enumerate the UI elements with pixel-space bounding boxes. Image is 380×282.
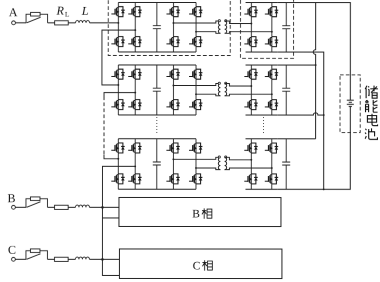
transistor module1 S1t <box>111 7 124 17</box>
wire module2 secondary top rail extension <box>278 64 316 66</box>
transistor module3 secondary cell <box>265 174 278 184</box>
transistor module1 S3t <box>128 7 141 17</box>
resistor R_C <box>55 257 69 261</box>
wire module1 secondary leg1 <box>250 3 252 52</box>
transistor module2 secondary cell <box>265 100 278 110</box>
svg-text:B: B <box>192 208 200 220</box>
wire module3 secondary leg2 <box>271 139 273 189</box>
wire module1 secondary top rail to battery positive <box>278 3 351 101</box>
capacitor module1 DC-link C1 <box>153 2 161 52</box>
transistor module3 S1t <box>111 143 124 153</box>
wire module2 leg1 <box>117 65 119 115</box>
wire A terminal to breaker <box>15 22 26 24</box>
wire module2 secondary leg1 <box>250 65 252 115</box>
wire module3 leg2 <box>134 139 136 189</box>
transistor module3 secondary cell <box>265 143 278 153</box>
transistor module1 S2 <box>111 37 124 47</box>
wire phase A inductor to module1 <box>90 22 119 24</box>
wire module3 secondary bottom rail to battery negative <box>278 106 351 189</box>
transistor module2 Q4 <box>189 100 202 110</box>
terminal C <box>12 257 16 261</box>
transistor module2 S4 <box>128 100 141 110</box>
wire B terminal to breaker <box>15 206 26 208</box>
wire transformer secondary to module2 rectifier leg1 mid <box>225 84 252 87</box>
wire chain module1 leg2-mid to module2 input <box>102 30 135 85</box>
transistor module2 S1t <box>111 69 124 79</box>
transistor module2 Q2 <box>166 100 179 110</box>
svg-text:C: C <box>8 243 16 257</box>
transformer module3 polarity dots <box>218 156 220 158</box>
wire module3 H-bridge bottom rail <box>118 188 196 190</box>
wire module1 leg1 <box>117 2 119 51</box>
B-phase converter box <box>119 197 281 226</box>
wire module3 H-bridge top rail <box>118 138 196 140</box>
wire chain module3 leg2-mid to neutral <box>102 166 135 275</box>
svg-text:R: R <box>56 4 65 18</box>
transistor module3 Q2 <box>166 174 179 184</box>
transistor module1 secondary cell <box>265 37 278 47</box>
transistor module3 Q3t <box>189 143 202 153</box>
wire module1 secondary leg2 <box>271 3 273 52</box>
resistor R_B <box>55 205 69 209</box>
transistor module1 secondary cell <box>244 37 257 47</box>
inductor LC <box>75 257 89 259</box>
transistor module3 secondary cell <box>244 174 257 184</box>
node module2 AC input junction <box>117 84 119 86</box>
wire breaker to resistor <box>47 258 54 260</box>
wire module3 leg1 <box>117 139 119 189</box>
transistor module1 Q4 <box>189 37 202 47</box>
transistor module2 Q3t <box>189 69 202 79</box>
transformer module2 TR2 primary winding <box>218 84 220 96</box>
transformer module3 TR3 secondary winding <box>225 157 227 169</box>
node module3 AC input junction <box>117 158 119 160</box>
transistor module1 Q3t <box>189 7 202 17</box>
wire module3 leg4 <box>195 139 197 189</box>
wire module2 secondary leg2 <box>271 65 273 115</box>
transistor module3 secondary cell <box>244 143 257 153</box>
transistor module3 S4 <box>128 174 141 184</box>
transistor module1 secondary cell <box>265 7 278 17</box>
wire C terminal to breaker <box>15 258 26 260</box>
transistor module2 S2 <box>111 100 124 110</box>
transistor module3 Q1t <box>166 143 179 153</box>
transformer module2 polarity dots <box>218 82 220 84</box>
wire transformer secondary to module2 rectifier leg2 mid <box>225 94 272 96</box>
capacitor module3 DC-link C3 <box>153 139 161 190</box>
wire neutral tie to B-phase box <box>102 217 119 219</box>
wire phase B inductor to B-phase box <box>89 206 118 208</box>
C-phase converter box <box>119 249 282 279</box>
transistor module3 S2 <box>111 174 124 184</box>
node neutral tie at phase B <box>101 206 104 209</box>
dashed box module 1 (H-bridge + DAB primary + transformer) <box>108 0 230 56</box>
label battery text chu-neng-dian-chi <box>365 86 378 99</box>
transformer module3 TR3 primary winding <box>218 157 220 169</box>
svg-text:B: B <box>7 191 15 205</box>
wire module3 secondary top rail <box>246 138 278 140</box>
wire transformer secondary to module3 rectifier leg2 mid <box>225 168 272 170</box>
capacitor module2 output Co2 <box>282 65 290 115</box>
wire module1 leg4 <box>195 3 197 52</box>
wire module2 H-bridge bottom rail <box>118 114 196 116</box>
svg-text:L: L <box>65 11 69 19</box>
terminal A <box>12 21 16 25</box>
wire module2 leg4 <box>195 65 197 115</box>
wire module1 secondary bottom rail to negative bus <box>278 52 324 189</box>
wire module1 leg3 <box>172 2 174 51</box>
transistor module2 secondary cell <box>265 69 278 79</box>
dashed box battery <box>340 75 360 133</box>
wire module3 leg3 mid to transformer primary <box>173 157 220 159</box>
inductor LB <box>75 205 89 207</box>
svg-text:A: A <box>9 5 18 19</box>
transformer module1 polarity dots <box>218 20 220 22</box>
wire breaker to resistor <box>47 206 54 208</box>
wire module1 secondary top rail <box>246 2 278 4</box>
wire transformer secondary to module1 rectifier leg2 mid <box>225 32 272 34</box>
svg-text:C: C <box>193 260 201 272</box>
ellipsis dotted line (omitted modules, DC-link side) <box>156 117 158 135</box>
wire module3 leg4 mid to transformer primary <box>196 168 220 170</box>
wire module1 secondary bottom rail <box>246 51 278 53</box>
wire module1 H-bridge top rail <box>118 1 196 3</box>
transistor module1 Q1t <box>166 7 179 17</box>
wire module1 H-bridge bottom rail <box>118 51 196 53</box>
wire DC bus positive (module tops) <box>313 3 315 139</box>
wire module2 leg4 mid to transformer primary <box>196 94 220 96</box>
wire transformer secondary to module3 rectifier leg1 mid <box>225 157 252 160</box>
wire module2 secondary bottom rail extension with crossover hop <box>278 113 324 115</box>
node module1 AC input junction <box>117 22 119 24</box>
transformer module1 TR1 secondary winding <box>225 21 227 33</box>
transformer module1 TR1 primary winding <box>218 21 220 33</box>
transistor module2 secondary cell <box>244 100 257 110</box>
terminal B <box>12 205 16 209</box>
svg-text:L: L <box>81 4 89 18</box>
capacitor module1 output Co1 <box>282 3 290 53</box>
breaker switch SA <box>26 14 48 23</box>
wire module3 secondary bottom rail <box>245 188 277 190</box>
transistor module1 S4 <box>128 37 141 47</box>
node neutral tie at phase C <box>101 258 104 261</box>
battery storage cell (chu neng dian chi) <box>347 100 354 106</box>
wire phase C inductor to C-phase box <box>89 258 119 260</box>
wire resistor to inductor <box>68 22 75 24</box>
wire module2 leg2 <box>134 65 136 115</box>
transistor module2 secondary cell <box>244 69 257 79</box>
transistor module3 Q4 <box>189 174 202 184</box>
node bus positive to module2 top rail <box>315 64 317 66</box>
inductor LA <box>76 21 90 23</box>
wire module2 leg3 <box>172 65 174 115</box>
transistor module2 S3t <box>128 69 141 79</box>
wire module2 secondary top rail <box>246 64 278 66</box>
transistor module1 secondary cell <box>244 7 257 17</box>
breaker switch SB <box>26 199 48 208</box>
node bus negative to module3 bottom rail <box>323 188 325 190</box>
capacitor module3 output Co3 <box>282 139 290 190</box>
wire module1 leg2 <box>134 2 136 51</box>
wire module2 secondary bottom rail <box>246 114 278 116</box>
wire module2 H-bridge top rail <box>118 64 196 66</box>
dashed box module 1 secondary rectifier <box>240 0 293 58</box>
transistor module2 Q1t <box>166 69 179 79</box>
breaker switch SC <box>26 251 48 260</box>
wire module1 leg4 mid to transformer primary <box>196 32 220 34</box>
ellipsis dotted line (omitted modules, secondary side) <box>263 117 265 135</box>
wire module3 leg3 <box>172 139 174 190</box>
node bus negative to module2 bottom rail <box>323 114 325 116</box>
resistor R_A <box>55 21 69 25</box>
wire module3 secondary top rail extension <box>278 138 316 140</box>
wire breaker to resistor <box>48 22 55 24</box>
transistor module3 S3t <box>128 143 141 153</box>
wire module3 secondary leg1 <box>250 139 252 189</box>
wire module1 leg3 mid to transformer primary <box>173 21 220 23</box>
wire resistor to inductor <box>68 206 75 208</box>
wire transformer secondary to module1 rectifier leg1 mid <box>225 21 252 24</box>
transformer module2 TR2 secondary winding <box>225 84 227 96</box>
wire module2 leg3 mid to transformer primary <box>173 83 220 85</box>
transistor module1 Q2 <box>166 37 179 47</box>
wire resistor to inductor <box>68 258 75 260</box>
capacitor module2 DC-link C2 <box>153 65 161 115</box>
wire chain module2 leg2-mid (dashed continuation to module3) <box>104 93 135 97</box>
